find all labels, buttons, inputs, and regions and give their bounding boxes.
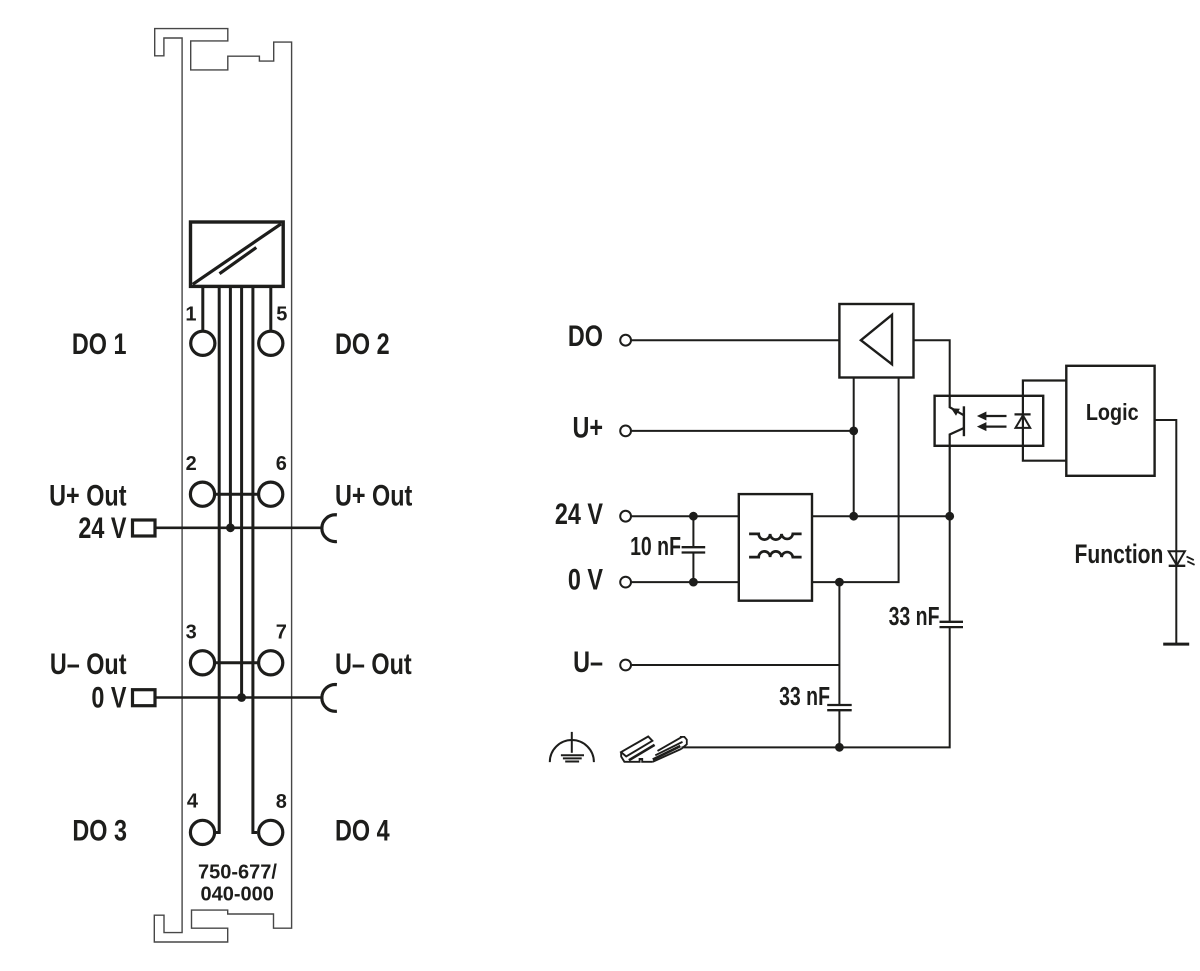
svg-text:8: 8 — [276, 791, 287, 813]
svg-text:4: 4 — [187, 791, 199, 813]
svg-text:33 nF: 33 nF — [889, 601, 940, 630]
dot 10nF top — [689, 512, 698, 521]
wire pin3 — [229, 286, 232, 527]
svg-text:Function: Function — [1075, 540, 1164, 570]
link circles 2-6 — [214, 493, 259, 496]
capacitor 10nF top lead — [692, 516, 694, 547]
link circles 3-7 — [214, 661, 259, 664]
contact circle 5 — [259, 331, 283, 355]
svg-text:33 nF: 33 nF — [779, 681, 830, 710]
U- wire — [632, 664, 840, 666]
light arrow lower — [977, 422, 1007, 431]
svg-text:0 V: 0 V — [568, 563, 603, 596]
0V wire to filter — [632, 581, 739, 583]
dot rail x amp-left — [849, 512, 858, 521]
wire pin5 — [253, 286, 257, 832]
24V socket arc — [322, 515, 337, 542]
LED triangle — [1016, 415, 1031, 428]
U+ terminal — [620, 426, 631, 437]
wire pin2 — [215, 286, 219, 832]
svg-text:DO 4: DO 4 — [335, 814, 390, 847]
phototransistor emitter — [950, 428, 964, 516]
svg-text:6: 6 — [276, 453, 287, 475]
LED cathode bar — [1015, 413, 1031, 415]
svg-text:0 V: 0 V — [91, 681, 126, 714]
svg-text:U– Out: U– Out — [335, 647, 412, 680]
33nF left lead lower — [838, 710, 840, 747]
svg-text:DO 1: DO 1 — [72, 327, 127, 360]
amp output wire — [914, 340, 950, 396]
filter box — [739, 494, 812, 601]
amplifier box — [839, 304, 913, 378]
contact circle 2 — [190, 482, 214, 506]
wire pin6 — [269, 286, 272, 331]
wire pin4 — [240, 286, 243, 697]
svg-text:7: 7 — [276, 621, 287, 643]
svg-text:U–: U– — [573, 645, 603, 678]
LED feed loop — [1023, 381, 1066, 461]
ground rail wire — [682, 627, 950, 747]
amplifier triangle — [861, 315, 892, 365]
function LED ground bar — [1163, 643, 1189, 646]
33nF left lead upper — [838, 582, 840, 705]
U- terminal — [620, 660, 631, 671]
driver box U1 — [191, 222, 284, 286]
optocoupler box — [935, 396, 1044, 446]
phototransistor base bar — [963, 406, 965, 436]
phototransistor collector — [950, 396, 964, 416]
U+ junction dot — [849, 427, 858, 436]
svg-text:U+: U+ — [572, 411, 603, 444]
svg-text:U– Out: U– Out — [50, 647, 127, 680]
24V horizontal line — [155, 526, 321, 529]
svg-text:U+ Out: U+ Out — [335, 479, 412, 512]
24V wire to filter — [632, 515, 739, 517]
contact circle 1 — [191, 331, 215, 355]
dot 0V-out — [835, 578, 844, 587]
svg-text:DO 2: DO 2 — [335, 327, 390, 360]
function LED cathode bar — [1169, 565, 1186, 567]
wire pin1 — [201, 286, 204, 331]
dot 10nF bottom — [689, 578, 698, 587]
choke winding upper — [749, 534, 802, 540]
contact circle 6 — [259, 482, 283, 506]
svg-text:2: 2 — [186, 453, 197, 475]
U+ wire — [632, 430, 854, 432]
DO wire — [632, 339, 840, 341]
24V rail from filter — [812, 515, 950, 517]
light arrow upper — [977, 412, 1007, 421]
contact circle 4 — [190, 820, 214, 844]
module body outline — [154, 29, 291, 942]
svg-text:DO 3: DO 3 — [72, 814, 127, 847]
capacitor 10nF plates — [682, 547, 706, 552]
amp left supply wire — [853, 378, 855, 517]
svg-text:Logic: Logic — [1086, 400, 1139, 426]
svg-text:U+ Out: U+ Out — [49, 479, 126, 512]
svg-text:24 V: 24 V — [555, 497, 603, 530]
collector arrowhead — [951, 408, 960, 416]
0V horizontal line — [155, 696, 321, 699]
function LED rays — [1187, 557, 1195, 565]
svg-text:5: 5 — [276, 303, 287, 325]
amp right supply wire — [812, 378, 899, 583]
capacitor 33nF left plates — [827, 705, 852, 710]
24V connector rect — [133, 520, 156, 536]
0V connector rect — [133, 690, 156, 706]
earth symbol — [550, 732, 594, 762]
svg-text:1: 1 — [185, 304, 196, 326]
svg-text:DO: DO — [568, 319, 603, 352]
24V junction dot — [226, 523, 235, 532]
logic output wire — [1155, 420, 1177, 644]
capacitor 10nF bottom lead — [692, 553, 694, 583]
contact circle 3 — [190, 651, 214, 675]
choke winding lower — [749, 551, 802, 557]
svg-text:10 nF: 10 nF — [630, 531, 681, 560]
contact circle 8 — [259, 820, 283, 844]
0V socket arc — [322, 685, 337, 712]
33nF right lead upper — [949, 516, 951, 622]
svg-text:040-000: 040-000 — [200, 883, 273, 905]
svg-text:750-677/: 750-677/ — [198, 861, 277, 883]
DO terminal — [620, 335, 631, 346]
capacitor 33nF right plates — [940, 622, 964, 627]
svg-text:24 V: 24 V — [78, 511, 126, 544]
DIN rail icon — [621, 737, 687, 762]
24V terminal right — [620, 511, 631, 522]
logic box — [1066, 366, 1154, 476]
ground junction dot — [835, 743, 844, 752]
svg-text:3: 3 — [186, 621, 197, 643]
dot rail x emitter — [945, 512, 954, 521]
0V junction dot — [237, 693, 246, 702]
function LED triangle — [1169, 551, 1185, 565]
0V terminal right — [620, 577, 631, 588]
contact circle 7 — [259, 651, 283, 675]
